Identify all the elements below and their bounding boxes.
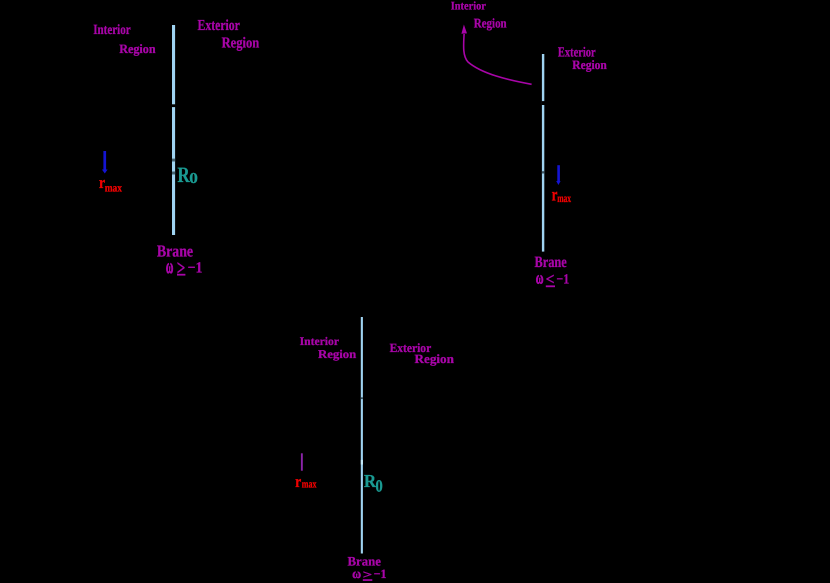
svg-text:Region: Region [222, 34, 260, 51]
svg-text:−1: −1 [188, 260, 203, 277]
fig2 label Exterior [558, 46, 596, 61]
fig3 label Interior [300, 335, 339, 348]
fig2 blue tick r_max marker [556, 165, 560, 185]
fig1 black dot on line [172, 104, 176, 107]
svg-text:0: 0 [189, 170, 198, 187]
svg-text:ω: ω [352, 566, 361, 581]
fig3 label Region (exterior) [415, 352, 454, 366]
fig1 label r_max [99, 173, 122, 194]
svg-text:−1: −1 [374, 567, 387, 581]
svg-text:max: max [105, 182, 123, 194]
fig1 dark tick lower on line [172, 172, 175, 175]
fig1 label omega >= -1 [166, 254, 203, 280]
svg-text:Interior: Interior [93, 22, 131, 38]
svg-text:Interior: Interior [300, 335, 339, 348]
svg-text:>: > [177, 255, 186, 280]
fig3 label omega >= -1 [352, 566, 386, 582]
fig2 curved arrow to interior region [461, 25, 531, 85]
svg-text:Interior: Interior [451, 0, 486, 13]
fig1 label Exterior [198, 17, 241, 34]
fig2 brane line [542, 54, 544, 252]
fig1 blue arrow r_max marker [102, 151, 108, 174]
svg-text:Region: Region [572, 58, 607, 72]
svg-text:max: max [302, 479, 317, 491]
svg-text:Region: Region [119, 42, 155, 56]
fig1 brane line [172, 25, 175, 235]
fig2 label Region (exterior) [572, 58, 607, 72]
svg-text:Region: Region [474, 15, 507, 30]
svg-text:Exterior: Exterior [198, 17, 241, 34]
fig1 label R0 [177, 162, 198, 187]
svg-text:ω: ω [166, 254, 174, 278]
svg-text:−1: −1 [556, 273, 569, 288]
fig2 label r_max [552, 185, 572, 205]
svg-text:max: max [557, 192, 571, 205]
fig2 label Interior [451, 0, 486, 13]
svg-text:Region: Region [318, 347, 357, 361]
fig2 black dot on line [542, 101, 545, 105]
fig3 label R0 [364, 471, 383, 496]
svg-text:ω: ω [536, 268, 544, 288]
fig2 faint dark mark on line [542, 171, 544, 173]
fig3 brane line [361, 317, 363, 554]
fig1 label Brane [157, 241, 194, 260]
svg-text:Region: Region [415, 352, 454, 366]
fig1 label Region (exterior) [222, 34, 260, 51]
fig1 label Interior [93, 22, 131, 38]
fig3 label r_max [295, 472, 317, 491]
fig3 label Region (interior) [318, 347, 357, 361]
fig1 label Region (interior) [119, 42, 155, 56]
fig3 label Brane [348, 554, 382, 568]
fig2 label Region (interior) [474, 15, 507, 30]
fig2 label Brane [535, 254, 567, 271]
fig2 label omega <= -1 [536, 268, 569, 289]
fig1 dark tick upper on line [172, 159, 175, 162]
fig3 label Exterior [390, 341, 432, 355]
fig3 purple tick r_max marker [301, 453, 303, 470]
fig3 faint dot on line [361, 397, 363, 399]
svg-text:r: r [295, 472, 302, 491]
svg-text:0: 0 [375, 477, 382, 496]
svg-text:Brane: Brane [157, 241, 194, 260]
fig3 bright tick on line [361, 460, 363, 465]
